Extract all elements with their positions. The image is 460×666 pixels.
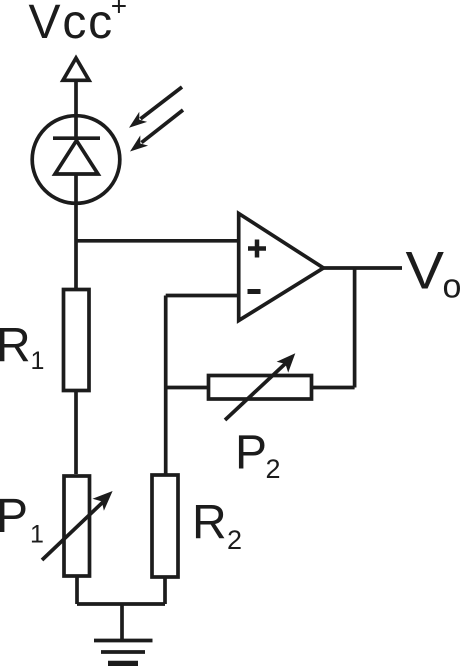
potentiometer P1 [42,476,113,576]
ground [94,604,153,664]
light arrow 1 [129,87,182,128]
wire [75,576,79,604]
P2 label [235,427,281,485]
svg-text:+: + [111,0,127,22]
wire [74,391,78,474]
svg-text:R: R [192,497,227,550]
resistor R1 [64,290,90,391]
wire [353,268,357,388]
svg-text:Vcc: Vcc [29,0,114,49]
svg-text:V: V [406,241,445,300]
wire [74,116,78,289]
potentiometer P2 [209,353,312,420]
photodiode D1 [32,116,120,204]
wire [163,577,167,604]
P1 label [0,490,44,549]
Vo label [406,241,460,306]
svg-text:P: P [0,490,28,543]
wire [164,296,168,475]
svg-text:R: R [0,320,31,373]
svg-text:1: 1 [30,521,44,549]
svg-text:2: 2 [227,525,242,555]
svg-text:1: 1 [31,347,45,375]
wire [324,266,403,270]
wire [76,239,239,243]
svg-text:o: o [443,268,460,306]
svg-text:P: P [235,427,267,480]
Vcc label [29,0,128,49]
op-amp U1 [239,214,324,321]
light arrow 2 [130,110,183,152]
wire [74,80,78,116]
R2 label [192,497,242,556]
Vcc supply arrow [63,58,89,80]
resistor R2 [152,475,178,577]
R1 label [0,320,44,376]
wire [166,294,239,298]
svg-text:2: 2 [266,454,281,484]
wire [166,386,210,390]
wire [77,602,165,606]
wire [311,386,355,390]
